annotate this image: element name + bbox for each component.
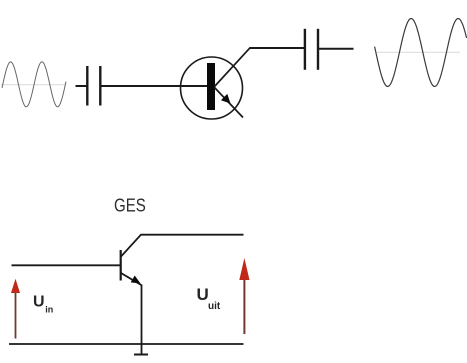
transistor Q2 emitter arrowhead [131,276,141,284]
transistor Q1 emitter lead [215,88,244,118]
capacitor C2 [305,29,318,70]
svg-text:U: U [33,294,45,311]
wire: emitter to ground [141,285,143,355]
transistor Q1 emitter arrowhead [221,94,231,104]
output waveform axis [377,51,460,53]
wire: bottom rail [9,343,244,345]
arrow: output voltage U_uit [239,258,249,334]
transistor Q2 collector lead [121,235,244,257]
transistor Q1 base bar [207,63,215,110]
svg-text:in: in [45,305,53,315]
wire: C2 to output [319,48,354,50]
svg-text:GES: GES [114,196,146,216]
input waveform axis [1,84,66,86]
wire: Q1 collector to C2 [250,47,305,49]
ground [134,354,148,356]
output AC signal waveform [375,19,467,87]
capacitor C1 [76,66,101,106]
svg-text:U: U [197,285,209,304]
arrow: input voltage U_in [11,279,20,339]
svg-text:uit: uit [208,301,221,312]
wire: C1 to base of Q1 [101,85,207,87]
wire: input to base of Q2 [12,264,121,266]
transistor Q1 body circle [181,57,243,119]
transistor Q1 collector lead [215,48,251,87]
input AC signal waveform [2,62,66,107]
transistor Q2 emitter lead [121,273,142,286]
transistor Q2 base bar [120,250,122,281]
